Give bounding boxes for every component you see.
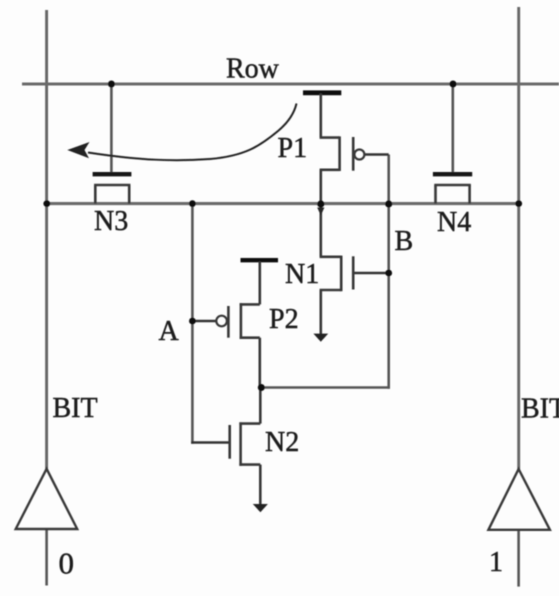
svg-text:P1: P1 [278,133,308,164]
wire N3 gate from Row [110,84,113,173]
wire P2 gate horizontal [192,320,216,323]
node B gate tap [385,270,392,277]
wire node B vertical [387,155,390,389]
wire P1 gate horizontal [365,153,389,156]
transistor N3 [93,174,132,203]
ground arrow of N1 [313,334,328,342]
wire cross-couple feedback horizontal [260,386,390,389]
wire node A vertical [191,204,194,444]
wire right BIT line [517,7,520,469]
node BIT-left rail [43,200,50,207]
svg-text:Row: Row [226,54,280,85]
svg-text:P2: P2 [269,304,299,335]
node A-rail [189,200,196,207]
wire N2 gate horizontal [191,441,228,444]
transistor N2 [230,388,261,506]
annotation curved arrow [88,104,297,161]
wire internal storage-node rail [47,202,519,205]
svg-text:BIT: BIT [53,393,98,424]
transistor P1 [303,93,364,204]
current arrowhead below node junction [317,208,324,216]
driver buffer right (writes 1) [488,469,550,530]
node cross-couple tap [258,384,265,391]
transistor N1 [320,204,354,335]
svg-text:N2: N2 [265,427,299,458]
transistor P2 [216,260,278,387]
node Row-N4gate [450,81,457,88]
svg-text:B: B [395,226,414,257]
svg-text:A: A [159,316,180,347]
wire left BIT lower stub [45,529,48,586]
svg-text:N1: N1 [285,259,319,290]
svg-text:N3: N3 [94,206,128,237]
ground arrow of N2 [253,504,268,512]
wire Row word line [22,83,559,86]
wire N1 gate horizontal [353,272,389,275]
node B-rail [385,200,392,207]
svg-text:N4: N4 [437,207,471,238]
node BIT-right rail [515,200,522,207]
node P1 drain [317,200,324,207]
driver buffer left (writes 0) [16,469,77,529]
svg-text:BIT: BIT [521,394,559,425]
wire right BIT lower stub [517,530,520,587]
transistor N4 [433,174,472,203]
node Row-N3gate [108,81,115,88]
svg-text:1: 1 [489,547,503,578]
svg-text:0: 0 [59,546,75,581]
wire left BIT line [45,10,48,469]
node A [189,318,196,325]
wire N4 gate from Row [451,84,454,173]
